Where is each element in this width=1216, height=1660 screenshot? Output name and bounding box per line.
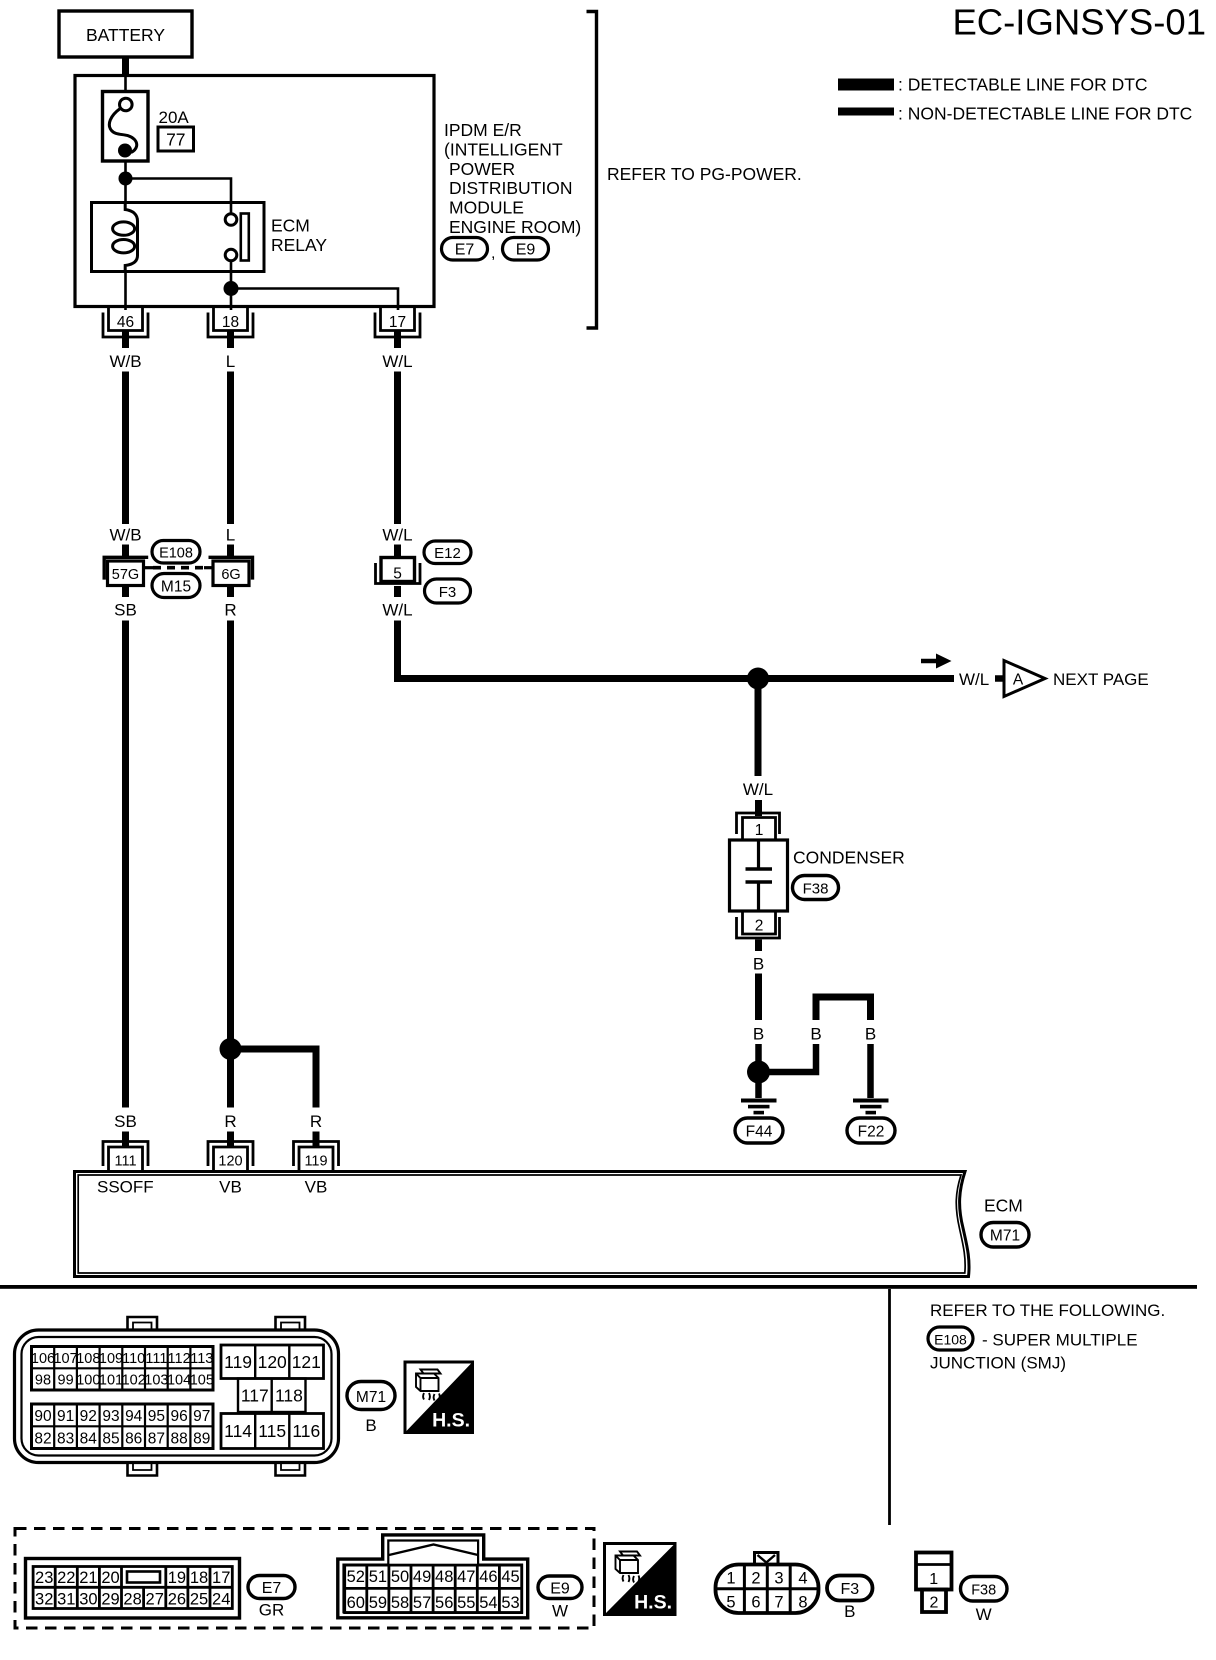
- wire B stub below condenser: [755, 940, 762, 952]
- svg-text:29: 29: [101, 1591, 119, 1609]
- svg-text:58: 58: [391, 1594, 409, 1612]
- svg-text:E9: E9: [550, 1581, 570, 1598]
- E9 pin grid: [345, 1565, 522, 1613]
- ECM box: [75, 1172, 970, 1277]
- wire SB stub to pin 111: [122, 1132, 129, 1147]
- svg-text:GR: GR: [259, 1601, 285, 1620]
- svg-text:59: 59: [369, 1594, 387, 1612]
- svg-text:85: 85: [102, 1431, 119, 1448]
- connector oval E108 (SMJ note): [928, 1327, 973, 1350]
- svg-text:W/B: W/B: [109, 352, 141, 371]
- separator line: [0, 1285, 1197, 1289]
- wire B right leg to ground F22: [867, 1044, 874, 1098]
- svg-text:95: 95: [148, 1408, 165, 1425]
- svg-text:32: 32: [35, 1591, 53, 1609]
- svg-text:E12: E12: [434, 545, 461, 562]
- svg-text:F22: F22: [858, 1124, 885, 1141]
- svg-text:4: 4: [798, 1570, 807, 1588]
- svg-text:- SUPER MULTIPLE: - SUPER MULTIPLE: [982, 1331, 1138, 1350]
- svg-text:R: R: [224, 1112, 236, 1131]
- connector oval E9 (IPDM): [503, 238, 549, 261]
- junction dot R branch: [220, 1038, 242, 1060]
- svg-text:120: 120: [218, 1154, 242, 1170]
- bracket refer pg-power: [587, 12, 597, 329]
- wire fuse to relay: [124, 161, 127, 203]
- pin 17: [375, 308, 420, 337]
- svg-text:VB: VB: [305, 1178, 328, 1197]
- connector 57G: [104, 557, 153, 585]
- svg-text:111: 111: [145, 1351, 167, 1367]
- svg-text:POWER: POWER: [449, 159, 515, 179]
- connector oval F38 (pinout): [961, 1577, 1008, 1625]
- connector oval F3 (mid): [425, 579, 471, 603]
- svg-text:26: 26: [168, 1591, 186, 1609]
- connector oval E12: [424, 541, 471, 564]
- condenser pin 2: [737, 911, 780, 939]
- svg-text:97: 97: [193, 1408, 210, 1425]
- condenser C1 body: [730, 840, 788, 911]
- junction dot W/L: [747, 668, 769, 690]
- svg-text:M71: M71: [356, 1389, 386, 1406]
- svg-text:VB: VB: [219, 1178, 242, 1197]
- svg-text:E7: E7: [262, 1580, 282, 1597]
- condenser pin 1: [737, 813, 780, 841]
- wire W/L down from junction: [755, 679, 762, 777]
- svg-text:98: 98: [35, 1373, 51, 1389]
- svg-text:EC-IGNSYS-01: EC-IGNSYS-01: [952, 2, 1206, 43]
- wire L pin18 stub: [227, 332, 234, 349]
- svg-text:25: 25: [190, 1591, 208, 1609]
- connector oval M71 (pinout): [347, 1382, 395, 1436]
- ECM connector M71 shell: [15, 1317, 339, 1476]
- svg-text:99: 99: [58, 1373, 74, 1389]
- svg-text:W/L: W/L: [382, 352, 412, 371]
- wire battery feed inside IPDM: [124, 77, 127, 93]
- svg-text:JUNCTION (SMJ): JUNCTION (SMJ): [930, 1354, 1066, 1373]
- svg-text:21: 21: [79, 1569, 97, 1587]
- junction dot below relay: [224, 281, 239, 296]
- svg-text:B: B: [810, 1025, 821, 1044]
- svg-text:52: 52: [347, 1568, 365, 1586]
- svg-text:110: 110: [122, 1351, 145, 1367]
- svg-text:REFER TO THE FOLLOWING.: REFER TO THE FOLLOWING.: [930, 1301, 1165, 1320]
- H.S. icon 2: [605, 1544, 676, 1615]
- svg-text:: DETECTABLE LINE FOR DTC: : DETECTABLE LINE FOR DTC: [898, 75, 1148, 95]
- svg-text:CONDENSER: CONDENSER: [793, 848, 905, 868]
- svg-text:5: 5: [393, 566, 402, 583]
- svg-text:86: 86: [125, 1431, 142, 1448]
- connector F3 shell: [716, 1553, 819, 1614]
- legend non-detectable line sample: [838, 108, 894, 116]
- wire R branch to pin 119: [231, 1049, 317, 1108]
- svg-text:49: 49: [413, 1568, 431, 1586]
- connector oval M15: [152, 574, 200, 598]
- wire W/B stub to 57G: [122, 545, 129, 558]
- legend detectable line sample: [838, 79, 894, 91]
- H.S. icon 1: [405, 1362, 473, 1433]
- wire B left leg to junction: [759, 1044, 817, 1072]
- wire W/L down to corner: [394, 621, 401, 679]
- svg-text:105: 105: [190, 1373, 214, 1389]
- svg-text:B: B: [365, 1416, 376, 1435]
- svg-text:F38: F38: [971, 1583, 996, 1599]
- ground F44: [735, 1099, 783, 1144]
- svg-text:B: B: [865, 1025, 876, 1044]
- svg-text:31: 31: [57, 1591, 75, 1609]
- wire R stub to pin 119: [313, 1132, 320, 1147]
- wire R stub to pin 120: [227, 1132, 234, 1147]
- svg-text:114: 114: [224, 1421, 252, 1441]
- stub before triangle: [995, 675, 1006, 682]
- svg-text:50: 50: [391, 1568, 409, 1586]
- svg-text:19: 19: [168, 1569, 186, 1587]
- wire W/B run: [122, 372, 129, 525]
- connector 5: [376, 558, 421, 584]
- connector 6G: [204, 557, 253, 585]
- svg-text:ENGINE ROOM): ENGINE ROOM): [449, 217, 581, 237]
- svg-text:A: A: [1013, 672, 1024, 689]
- wire W/L pin17 stub: [394, 332, 401, 349]
- svg-text:SB: SB: [114, 1112, 137, 1131]
- svg-text:113: 113: [190, 1351, 213, 1367]
- wire relay contact to pin 18: [230, 261, 233, 310]
- svg-text:8: 8: [798, 1594, 807, 1612]
- svg-text:SB: SB: [114, 601, 137, 620]
- svg-text:W: W: [552, 1602, 568, 1621]
- svg-text:84: 84: [80, 1431, 98, 1448]
- wire B to ground junction: [755, 1044, 762, 1098]
- svg-text:102: 102: [122, 1373, 146, 1389]
- pin 18: [208, 308, 253, 337]
- svg-text:46: 46: [117, 314, 134, 331]
- svg-text:119: 119: [224, 1352, 252, 1372]
- svg-text:108: 108: [76, 1351, 100, 1367]
- svg-text:H.S.: H.S.: [432, 1410, 470, 1432]
- svg-text:18: 18: [222, 314, 239, 331]
- svg-text:,: ,: [491, 245, 495, 262]
- svg-text:BATTERY: BATTERY: [86, 25, 165, 45]
- svg-text:112: 112: [168, 1351, 191, 1367]
- svg-text:89: 89: [193, 1431, 210, 1448]
- svg-text:17: 17: [389, 314, 406, 331]
- svg-text:1: 1: [726, 1570, 735, 1588]
- svg-text:L: L: [226, 526, 235, 545]
- connector oval E9 (pinout): [538, 1576, 582, 1621]
- svg-text:2: 2: [930, 1595, 939, 1612]
- svg-text:100: 100: [76, 1373, 100, 1389]
- svg-text:120: 120: [258, 1352, 287, 1372]
- svg-text:107: 107: [53, 1351, 77, 1367]
- svg-text:E9: E9: [516, 242, 536, 259]
- svg-text:117: 117: [241, 1386, 269, 1406]
- junction dot below fuse: [119, 172, 133, 186]
- M71 pin grid right: [221, 1345, 324, 1449]
- svg-text:2: 2: [751, 1570, 760, 1588]
- wire R stub below 6G: [227, 586, 234, 598]
- svg-text:MODULE: MODULE: [449, 198, 524, 218]
- svg-text:W/L: W/L: [382, 526, 412, 545]
- svg-text:101: 101: [99, 1373, 123, 1389]
- svg-text:20A: 20A: [159, 108, 190, 127]
- svg-text:NEXT PAGE: NEXT PAGE: [1053, 670, 1149, 689]
- svg-text:22: 22: [57, 1569, 75, 1587]
- ground F22: [847, 1099, 895, 1144]
- svg-text:115: 115: [258, 1421, 286, 1441]
- wire branch to relay contact: [126, 179, 232, 215]
- svg-text:87: 87: [148, 1431, 165, 1448]
- wire branch to pin 17: [231, 289, 398, 311]
- SMJ dashed line: [153, 566, 204, 570]
- svg-text:46: 46: [479, 1568, 497, 1586]
- wire L run: [227, 372, 234, 525]
- wire B loop branch: [816, 997, 871, 1020]
- svg-text:W: W: [976, 1605, 992, 1624]
- wire W/L horizontal run: [394, 675, 954, 682]
- svg-text:24: 24: [212, 1591, 230, 1609]
- svg-text:82: 82: [34, 1431, 51, 1448]
- svg-text:57G: 57G: [112, 567, 139, 583]
- wire L stub to 6G: [227, 545, 234, 558]
- wire W/L run: [394, 372, 401, 525]
- svg-text:92: 92: [80, 1408, 97, 1425]
- svg-text:51: 51: [369, 1568, 387, 1586]
- connector E9 shell: [338, 1535, 528, 1618]
- svg-text:M71: M71: [990, 1228, 1020, 1245]
- pin 111: [103, 1142, 148, 1172]
- svg-text:48: 48: [435, 1568, 453, 1586]
- wire SB stub below 57G: [122, 586, 129, 598]
- svg-text:116: 116: [292, 1421, 320, 1441]
- svg-text:88: 88: [170, 1431, 187, 1448]
- svg-text:M15: M15: [161, 579, 191, 596]
- svg-text:94: 94: [125, 1408, 143, 1425]
- wire W/B pin46 stub: [122, 332, 129, 349]
- connector oval M71 (ECM): [981, 1223, 1029, 1248]
- svg-text:E7: E7: [455, 242, 475, 259]
- svg-text:5: 5: [726, 1594, 735, 1612]
- svg-text:(INTELLIGENT: (INTELLIGENT: [444, 139, 563, 159]
- svg-text:54: 54: [479, 1594, 497, 1612]
- svg-text:W/B: W/B: [109, 526, 141, 545]
- svg-text:20: 20: [101, 1569, 119, 1587]
- ECM relay U1: [92, 203, 265, 272]
- svg-text:121: 121: [292, 1352, 321, 1372]
- svg-text:17: 17: [212, 1569, 230, 1587]
- svg-text:56: 56: [435, 1594, 453, 1612]
- wire B run: [755, 974, 762, 1021]
- svg-text:83: 83: [57, 1431, 74, 1448]
- svg-text:SSOFF: SSOFF: [97, 1178, 154, 1197]
- IPDM E/R box: [75, 76, 434, 307]
- svg-text:111: 111: [114, 1154, 136, 1170]
- svg-text:DISTRIBUTION: DISTRIBUTION: [449, 178, 572, 198]
- svg-text:93: 93: [102, 1408, 119, 1425]
- svg-text:30: 30: [79, 1591, 97, 1609]
- svg-text:91: 91: [57, 1408, 74, 1425]
- pin 46: [103, 308, 148, 337]
- battery B1: [59, 11, 192, 57]
- svg-text:7: 7: [774, 1594, 783, 1612]
- svg-text:E108: E108: [934, 1332, 967, 1348]
- svg-text:B: B: [753, 1025, 764, 1044]
- svg-text:ECM: ECM: [271, 216, 310, 236]
- connector E7 shell: [26, 1559, 240, 1619]
- connector oval E7 (IPDM): [442, 238, 496, 263]
- connector oval F3 (pinout): [827, 1576, 873, 1622]
- svg-text:1: 1: [755, 822, 764, 839]
- svg-text:IPDM E/R: IPDM E/R: [444, 120, 522, 140]
- connector oval E7 (pinout): [248, 1576, 295, 1620]
- divider vertical line: [888, 1289, 891, 1525]
- svg-text:E108: E108: [159, 546, 193, 562]
- svg-text:REFER TO PG-POWER.: REFER TO PG-POWER.: [607, 164, 802, 184]
- svg-text:90: 90: [34, 1408, 52, 1425]
- wire coil to pin 46: [124, 272, 127, 311]
- svg-text:ECM: ECM: [984, 1196, 1023, 1216]
- svg-text:60: 60: [347, 1594, 365, 1612]
- connector oval E108: [152, 541, 200, 564]
- E7 pin cells row1: [35, 1567, 230, 1609]
- svg-text:B: B: [844, 1602, 855, 1621]
- fuse number box 77: [158, 127, 194, 151]
- svg-text:96: 96: [170, 1408, 187, 1425]
- direction arrow: [921, 654, 952, 669]
- next page triangle A: [1004, 661, 1045, 697]
- connector oval F38 (condenser): [793, 876, 839, 900]
- svg-text:53: 53: [501, 1594, 519, 1612]
- svg-text:57: 57: [413, 1594, 431, 1612]
- svg-text:B: B: [753, 955, 764, 974]
- svg-text:6G: 6G: [221, 567, 240, 583]
- svg-text:45: 45: [501, 1568, 519, 1586]
- wire R run: [227, 621, 234, 1108]
- svg-text:R: R: [224, 601, 236, 620]
- wire SB run: [122, 621, 129, 1108]
- svg-text:F38: F38: [803, 881, 829, 898]
- M71 pin grid upper-left: [31, 1347, 214, 1391]
- svg-text:RELAY: RELAY: [271, 235, 327, 255]
- junction dot B: [747, 1061, 770, 1084]
- connector F38 shell: [916, 1553, 952, 1613]
- svg-text:23: 23: [35, 1569, 53, 1587]
- wire W/L stub to condenser pin 1: [755, 800, 762, 816]
- svg-text:119: 119: [304, 1154, 327, 1170]
- svg-text:W/L: W/L: [382, 601, 412, 620]
- dashed option box: [15, 1529, 594, 1629]
- wire W/L stub to conn 5: [394, 545, 401, 558]
- svg-text:55: 55: [457, 1594, 475, 1612]
- svg-text:R: R: [310, 1112, 322, 1131]
- svg-text:F3: F3: [439, 584, 457, 601]
- wire W/L stub below conn 5: [394, 586, 401, 597]
- svg-text:118: 118: [275, 1386, 303, 1406]
- svg-text:18: 18: [190, 1569, 208, 1587]
- svg-text:: NON-DETECTABLE LINE FOR DTC: : NON-DETECTABLE LINE FOR DTC: [898, 104, 1192, 124]
- wire battery to IPDM: [122, 58, 129, 77]
- svg-text:27: 27: [146, 1591, 164, 1609]
- svg-text:3: 3: [774, 1570, 783, 1588]
- svg-text:104: 104: [167, 1373, 191, 1389]
- pin 120: [208, 1142, 253, 1172]
- svg-text:W/L: W/L: [743, 780, 773, 799]
- svg-text:1: 1: [929, 1571, 938, 1588]
- svg-text:F44: F44: [746, 1124, 773, 1141]
- svg-text:W/L: W/L: [959, 670, 989, 689]
- svg-text:28: 28: [123, 1591, 141, 1609]
- svg-text:47: 47: [457, 1568, 475, 1586]
- pin 119: [294, 1142, 339, 1172]
- svg-text:103: 103: [144, 1373, 168, 1389]
- svg-text:2: 2: [755, 918, 764, 935]
- svg-text:H.S.: H.S.: [634, 1592, 672, 1614]
- svg-text:6: 6: [751, 1594, 760, 1612]
- svg-text:77: 77: [166, 130, 185, 150]
- IPDM label block: [444, 120, 581, 237]
- svg-text:106: 106: [31, 1351, 55, 1367]
- fuse 20A 77: [103, 92, 149, 162]
- M71 pin grid lower-left: [32, 1404, 214, 1449]
- svg-text:109: 109: [99, 1351, 123, 1367]
- svg-text:L: L: [226, 352, 235, 371]
- svg-text:F3: F3: [840, 1581, 859, 1598]
